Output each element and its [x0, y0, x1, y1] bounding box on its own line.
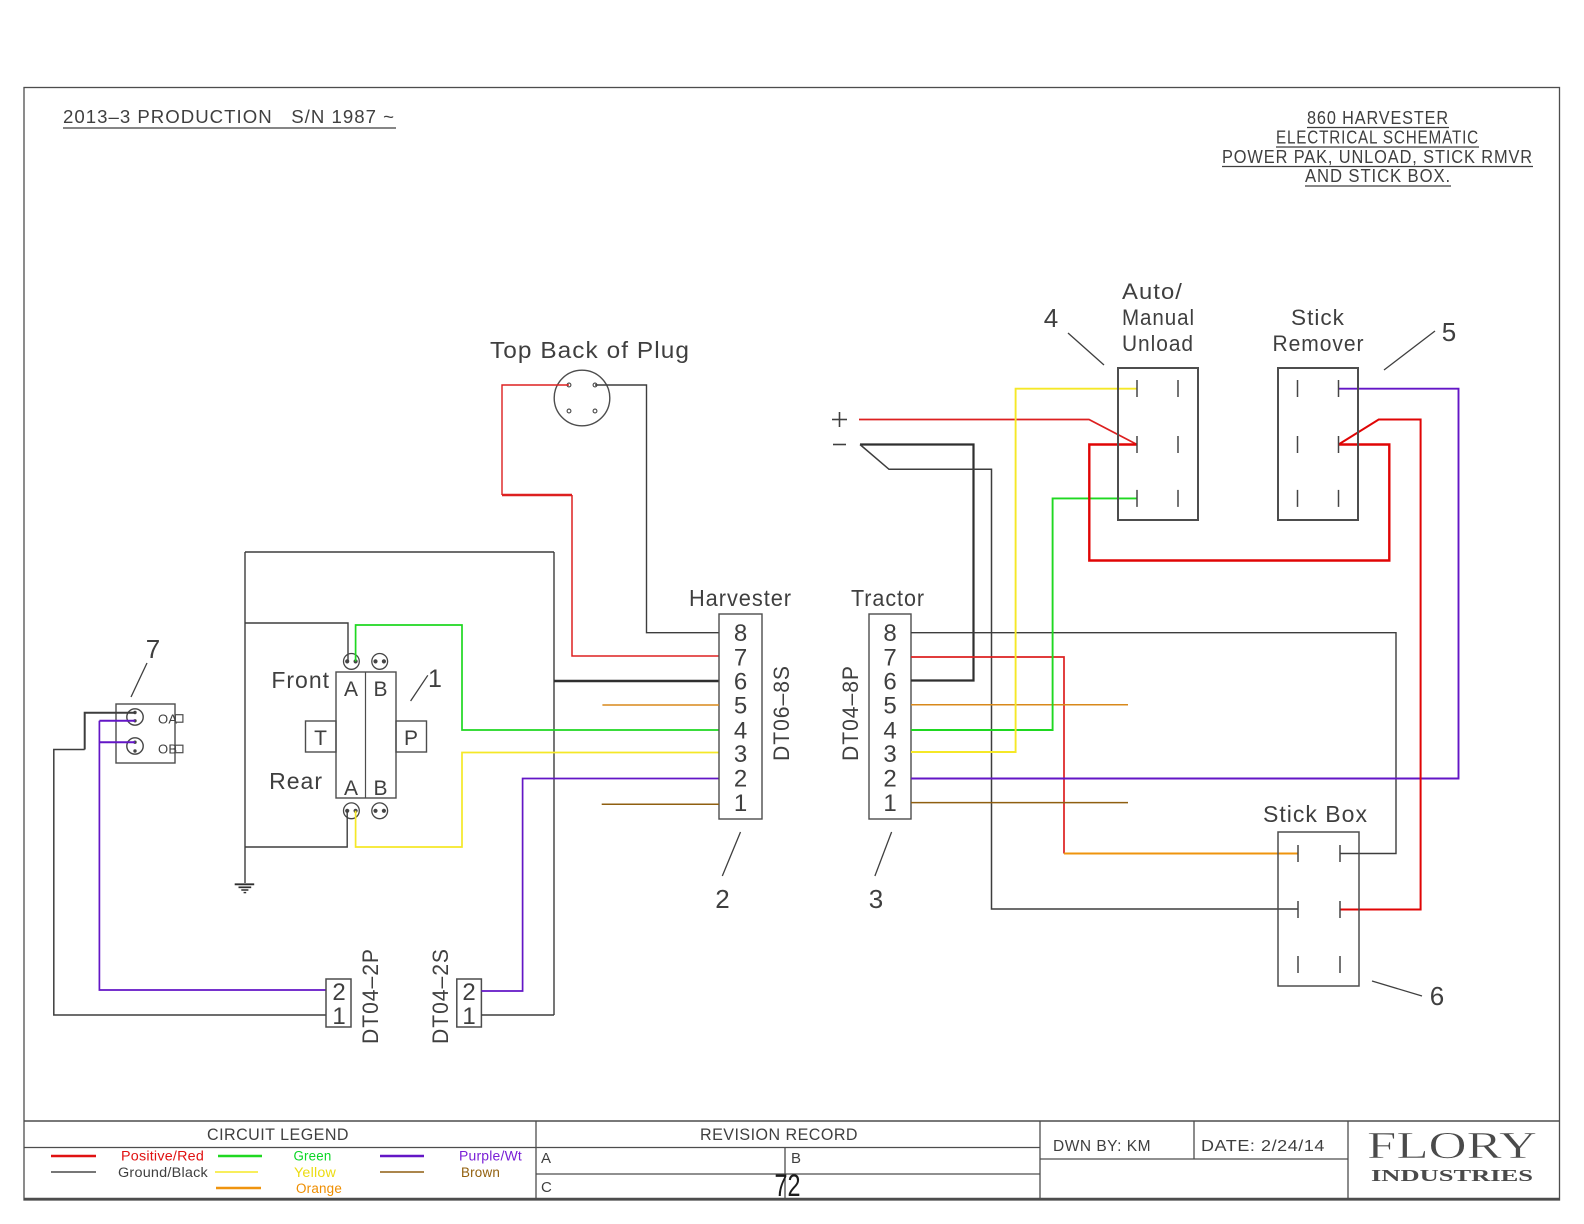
wire purple J7 to DT04-2P pin 2	[99, 721, 326, 990]
svg-text:OA: OA	[158, 711, 177, 726]
svg-text:REVISION RECORD: REVISION RECORD	[700, 1125, 858, 1144]
svg-text:8: 8	[734, 620, 747, 647]
svg-text:7: 7	[883, 644, 896, 671]
svg-text:C: C	[541, 1179, 552, 1196]
connector J7 two-socket receptacle	[116, 704, 183, 763]
svg-text:Manual: Manual	[1122, 305, 1195, 330]
svg-text:5: 5	[883, 692, 896, 719]
svg-text:Orange: Orange	[296, 1181, 342, 1196]
wire green Front A to Harvester pin 4	[356, 625, 719, 730]
wire black Tractor pin 8 to Stick Box	[911, 633, 1396, 854]
svg-text:A: A	[541, 1150, 551, 1167]
svg-text:Positive/Red: Positive/Red	[121, 1149, 204, 1164]
svg-text:2: 2	[734, 766, 747, 793]
svg-text:CIRCUIT LEGEND: CIRCUIT LEGEND	[207, 1125, 349, 1144]
connector plug P1 (Top Back of Plug)	[490, 337, 690, 426]
label 4 callout	[1044, 303, 1104, 365]
svg-text:POWER PAK, UNLOAD, STICK R: POWER PAK, UNLOAD, STICK RMVR	[1222, 146, 1533, 167]
svg-text:FLORY: FLORY	[1367, 1125, 1537, 1167]
wire purple Tractor pin 2 to Stick Remover	[911, 389, 1459, 779]
svg-text:Harvester: Harvester	[689, 585, 792, 611]
svg-text:3: 3	[869, 884, 883, 914]
svg-text:Ground/Black: Ground/Black	[118, 1165, 208, 1180]
wire ground net around switch 1	[245, 552, 554, 1015]
svg-text:Remover: Remover	[1273, 331, 1365, 356]
wire black plug to Harvester pin 8	[595, 385, 719, 633]
label 1 callout	[411, 665, 442, 701]
svg-text:ELECTRICAL SCHEMATIC: ELECTRICAL SCHEMATIC	[1276, 127, 1479, 148]
legend brown	[380, 1165, 500, 1180]
svg-text:8: 8	[883, 620, 896, 647]
wire black Harvester pin 6 to ground net	[554, 680, 719, 682]
legend orange	[216, 1181, 342, 1196]
wire red plug to Harvester pin 7	[502, 385, 719, 656]
svg-text:6: 6	[1430, 981, 1444, 1011]
svg-text:Unload: Unload	[1122, 331, 1194, 356]
wire black battery negative to Tractor pin 6	[860, 445, 974, 681]
Flory Industries logo	[1367, 1125, 1537, 1185]
svg-text:P: P	[404, 727, 418, 750]
wire black Rear A to ground net	[245, 811, 347, 847]
svg-text:2: 2	[332, 979, 345, 1006]
legend positive/red	[51, 1149, 204, 1164]
svg-text:2013–3 PRODUCTION S/N 1987: 2013–3 PRODUCTION S/N 1987 ~	[63, 106, 395, 127]
svg-text:7: 7	[146, 634, 160, 664]
connector DT04-2S	[428, 948, 481, 1044]
svg-text:1: 1	[428, 665, 442, 693]
svg-text:Front: Front	[271, 667, 330, 693]
svg-text:T: T	[314, 727, 327, 750]
wire yellow Tractor pin 3 to Unload switch	[911, 389, 1137, 752]
svg-text:Brown: Brown	[461, 1165, 500, 1180]
wire brown Tractor pin 1 stub	[911, 802, 1128, 804]
terminal battery positive	[832, 412, 847, 427]
svg-text:A: A	[344, 678, 358, 701]
svg-text:A: A	[344, 777, 358, 800]
wire red Stick Remover to Stick Box	[1339, 420, 1421, 910]
wire red Tractor pin 7 to Stick Box	[911, 657, 1298, 854]
wire red battery positive to Unload switch	[859, 420, 1137, 445]
svg-text:Yellow: Yellow	[294, 1165, 336, 1180]
svg-text:72: 72	[775, 1167, 801, 1203]
svg-text:3: 3	[734, 741, 747, 768]
svg-text:DT04–8P: DT04–8P	[838, 665, 863, 761]
connector DT06-8S Harvester	[689, 585, 794, 819]
svg-text:2: 2	[715, 884, 729, 914]
svg-text:5: 5	[734, 692, 747, 719]
svg-text:Top Back of Plug: Top Back of Plug	[490, 337, 690, 363]
svg-text:5: 5	[1442, 317, 1456, 347]
switch S4 Auto/Manual Unload	[1118, 279, 1198, 520]
connector DT04-2P	[326, 948, 383, 1044]
production note	[63, 106, 396, 128]
svg-text:INDUSTRIES: INDUSTRIES	[1371, 1166, 1533, 1185]
svg-text:1: 1	[883, 790, 896, 817]
svg-text:3: 3	[883, 741, 896, 768]
label 2 callout	[715, 832, 740, 914]
sheet title	[1222, 107, 1533, 186]
svg-text:4: 4	[1044, 303, 1058, 333]
svg-text:AND STICK BOX.: AND STICK BOX.	[1305, 165, 1451, 186]
wire orange Tractor pin 5 stub	[911, 704, 1128, 706]
svg-text:Stick Box: Stick Box	[1263, 801, 1368, 827]
svg-text:DT04–2P: DT04–2P	[358, 948, 383, 1044]
wire green Tractor pin 4 to Unload switch	[911, 498, 1137, 730]
svg-text:860 HARVESTER: 860 HARVESTER	[1307, 107, 1449, 128]
svg-text:Auto/: Auto/	[1122, 279, 1183, 304]
svg-text:Tractor: Tractor	[851, 585, 925, 611]
label 5 callout	[1384, 317, 1456, 370]
switch S1 valve connector	[269, 654, 426, 819]
switch S6 Stick Box	[1263, 801, 1368, 986]
svg-text:DT06–8S: DT06–8S	[769, 665, 794, 761]
svg-text:Purple/Wt: Purple/Wt	[459, 1149, 522, 1164]
label 3 callout	[869, 832, 892, 914]
svg-text:DT04–2S: DT04–2S	[428, 948, 453, 1044]
wire brown Harvester pin 1 stub	[602, 803, 719, 805]
svg-text:1: 1	[734, 790, 747, 817]
legend purple/wt	[380, 1149, 522, 1164]
wire yellow Rear A to Harvester pin 3	[356, 753, 719, 848]
svg-text:B: B	[373, 678, 387, 701]
wire black DT04-2S pin 1 to ground net	[481, 1014, 554, 1016]
wire purple DT04-2S pin 2 to Harvester pin 2	[481, 779, 719, 992]
svg-text:B: B	[791, 1150, 801, 1167]
wire black J7 to DT04-2P pin 1	[54, 713, 326, 1015]
legend ground/black	[51, 1165, 208, 1180]
svg-text:B: B	[373, 777, 387, 800]
svg-text:Rear: Rear	[269, 768, 323, 794]
svg-text:Stick: Stick	[1291, 305, 1345, 330]
label 6 callout	[1372, 981, 1444, 1011]
svg-text:DWN BY: KM: DWN BY: KM	[1053, 1138, 1151, 1155]
svg-text:1: 1	[462, 1003, 475, 1030]
svg-text:2: 2	[462, 979, 475, 1006]
legend green	[218, 1149, 332, 1164]
wire orange Harvester pin 5 stub	[602, 704, 719, 706]
label 7 callout	[131, 634, 160, 697]
revision rows	[541, 1150, 801, 1203]
switch S5 Stick Remover	[1273, 305, 1365, 520]
svg-text:7: 7	[734, 644, 747, 671]
wire red loop Unload to Stick Remover	[1089, 445, 1389, 561]
legend yellow	[215, 1165, 336, 1180]
svg-text:DATE: 2/24/14: DATE: 2/24/14	[1201, 1138, 1325, 1155]
ground symbol	[235, 884, 255, 892]
wire black battery negative to Stick Box	[860, 445, 1298, 910]
terminal battery negative	[833, 444, 846, 446]
svg-text:1: 1	[332, 1003, 345, 1030]
connector DT04-8P Tractor	[838, 585, 925, 819]
svg-text:Green: Green	[294, 1149, 332, 1164]
svg-text:OB: OB	[158, 741, 177, 756]
svg-text:2: 2	[883, 766, 896, 793]
circuit legend	[207, 1125, 858, 1144]
